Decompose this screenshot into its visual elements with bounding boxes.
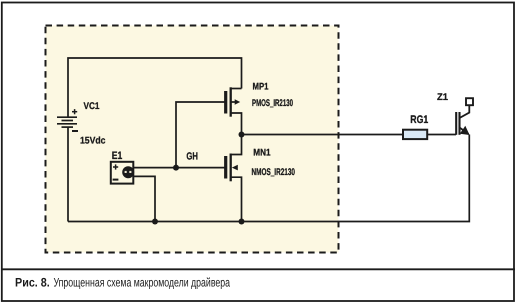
transistor Z1 collector terminal square (466, 98, 473, 105)
junction dot driver output (239, 132, 245, 138)
wire GH to MP1 gate (176, 102, 225, 168)
svg-text:MP1: MP1 (253, 81, 270, 92)
resistor RG1 body (403, 130, 427, 139)
transistor Z1 emitter lead with arrow (460, 128, 469, 135)
source E1 minus sign (113, 179, 119, 181)
battery VC1 plus sign (72, 111, 77, 113)
svg-text:PMOS_IR2130: PMOS_IR2130 (252, 98, 293, 109)
svg-text:NMOS_IR2130: NMOS_IR2130 (252, 167, 296, 178)
wire E1 to GH node and MN1 gate (133, 167, 224, 169)
transistor Z1 gate bar (455, 112, 457, 135)
svg-text:Упрощенная схема макромодели д: Упрощенная схема макромодели драйвера (54, 276, 231, 290)
source E1 box (111, 162, 134, 184)
wire VC1 to ground rail (67, 127, 69, 221)
svg-text:RG1: RG1 (410, 114, 428, 126)
battery VC1 plate long top (57, 116, 77, 118)
svg-text:Z1: Z1 (437, 92, 449, 103)
transistor Z1 collector lead (460, 106, 470, 119)
source E1 output circle (122, 166, 134, 178)
battery VC1 plate short (62, 120, 74, 122)
frame divider line (1, 268, 515, 270)
junction dot MN1 source ground (239, 219, 245, 225)
transistor MP1 bulk arrow (231, 101, 235, 103)
svg-text:E1: E1 (112, 150, 123, 162)
junction dot E1 ground (152, 219, 158, 225)
battery VC1 minus sign (72, 130, 78, 132)
wire top rail VCC (68, 58, 242, 117)
svg-text:VC1: VC1 (84, 101, 101, 112)
transistor MP1 gate bar (224, 91, 227, 114)
wire bottom ground rail (68, 135, 469, 222)
wire E1 lower output to ground (133, 176, 155, 221)
wire RG1 to Z1 gate (427, 134, 456, 136)
source E1 circle marks (125, 171, 127, 173)
transistor MN1 channel bar (230, 154, 232, 182)
battery VC1 plate long (57, 123, 77, 125)
transistor MP1 drain stub (231, 88, 242, 90)
node GH junction dot (173, 165, 179, 171)
source E1 plus sign (113, 166, 118, 168)
transistor MN1 gate bar (224, 156, 227, 179)
svg-text:15Vdc: 15Vdc (80, 136, 106, 147)
svg-text:Рис. 8.: Рис. 8. (15, 276, 50, 290)
transistor MN1 bulk arrow (232, 165, 238, 171)
svg-text:MN1: MN1 (253, 147, 271, 158)
transistor MP1 source stub (231, 113, 242, 135)
transistor MN1 drain stub (231, 135, 242, 155)
wire driver output to RG1 (242, 134, 404, 136)
transistor MP1 channel bar (230, 87, 232, 116)
transistor MN1 source stub (231, 177, 242, 221)
transistor Z1 channel bar (458, 112, 460, 135)
battery VC1 plate short bottom (62, 126, 74, 128)
macromodel dashed box (46, 26, 339, 253)
svg-text:GH: GH (186, 152, 198, 163)
